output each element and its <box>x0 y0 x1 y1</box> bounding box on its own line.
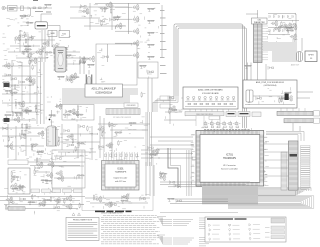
sub board part S1 <box>63 114 71 117</box>
svg-text:with I2C bus: with I2C bus <box>115 180 126 183</box>
audio amp QA1 <box>14 84 18 90</box>
power transformer T501 <box>246 90 253 102</box>
audio amp QA11 <box>25 76 32 83</box>
svg-text:CIRCUIT DIAGRAM NOTES: CIRCUIT DIAGRAM NOTES <box>101 212 123 215</box>
capacitor C210 <box>103 55 109 59</box>
transistor Q202 <box>79 57 86 64</box>
resistor R505 <box>244 65 252 68</box>
deflection part D18 <box>38 150 44 154</box>
wire <box>25 124 27 156</box>
EW part9 <box>36 157 40 163</box>
wire <box>153 165 155 196</box>
wire <box>299 126 301 131</box>
EW part6 <box>41 180 49 183</box>
wire <box>4 204 84 206</box>
shield loop wires <box>174 24 247 128</box>
resistor R208 <box>87 64 95 67</box>
bias part B4 <box>70 72 77 79</box>
abbreviation note line <box>160 212 238 214</box>
input stage Q01 <box>26 22 34 25</box>
wire <box>41 13 52 15</box>
wire <box>4 84 34 86</box>
wire <box>160 181 250 183</box>
symbols legend table <box>205 217 286 242</box>
svg-text:(LM78MO5/BLA): (LM78MO5/BLA) <box>264 84 277 87</box>
speaker driver T951 <box>297 52 303 62</box>
vertical out QV4 <box>19 184 23 190</box>
connector CN2 <box>254 24 263 63</box>
deflection part D21 <box>87 126 91 132</box>
video amp Q26 <box>100 8 108 11</box>
wire <box>48 37 50 48</box>
wire <box>4 145 44 147</box>
IF stage Q210 <box>51 43 58 50</box>
wire <box>247 63 249 81</box>
wire <box>15 126 17 160</box>
capacitor C223 <box>66 78 72 82</box>
IF stage Q21 <box>21 51 29 54</box>
chroma filter R30 <box>147 8 155 11</box>
deflection annotations <box>4 125 98 160</box>
power part PW14 <box>28 202 36 205</box>
sync part M2 <box>98 145 104 149</box>
sync part M10 <box>129 122 137 125</box>
wire <box>41 30 43 62</box>
wire <box>53 165 84 167</box>
EW part3 <box>47 161 54 168</box>
wire <box>297 97 310 99</box>
power to header wires <box>281 108 305 111</box>
audio amp QA6 <box>11 77 17 81</box>
A201 annotations <box>97 48 105 82</box>
ramp gen part3 <box>48 115 56 118</box>
ramp gen part1 <box>55 103 62 110</box>
interface part IF73 <box>152 148 159 155</box>
chroma amp Q30 <box>132 4 139 11</box>
power part PW4 <box>20 197 26 201</box>
note box N2 <box>238 112 250 117</box>
chroma filter R31 <box>147 20 155 23</box>
connector bar CN6 <box>8 207 25 210</box>
resistor R251 <box>141 92 145 98</box>
sync part M4 <box>97 126 104 133</box>
audio amp QB1 <box>36 108 40 114</box>
EW part10 <box>77 175 85 178</box>
wire <box>268 27 294 29</box>
warning symbols <box>72 213 81 216</box>
interface part IF72 <box>149 154 157 157</box>
IF annotations <box>13 31 76 65</box>
sync part M8 <box>110 124 116 128</box>
wire <box>19 30 21 52</box>
svg-text:1 2 3 4 5 6 7 8 9 10 11 12: 1 2 3 4 5 6 7 8 9 10 11 12 <box>113 117 131 119</box>
video buffer Q211 <box>81 58 89 61</box>
svg-text:A501_POW_1 KU SOUND KLUF: A501_POW_1 KU SOUND KLUF <box>256 81 285 84</box>
label box L2 <box>42 189 51 193</box>
decoupling cap CB1 <box>284 23 291 30</box>
wire <box>6 111 40 113</box>
vertical out QV2 <box>22 186 26 192</box>
decoupling cap CB4 <box>274 25 281 32</box>
wire <box>84 25 126 27</box>
svg-text:CN3 LED/IR: CN3 LED/IR <box>127 105 137 107</box>
chroma amp Q32 <box>132 28 139 35</box>
wire <box>43 62 45 124</box>
cap row CR1 <box>269 15 293 18</box>
interface annotations <box>142 146 157 165</box>
audio amp QA7 <box>32 64 36 70</box>
power rail annotations <box>4 187 78 214</box>
wire <box>47 25 60 27</box>
ir receiver part1 <box>169 105 176 112</box>
power part PW13 <box>9 201 15 205</box>
wire <box>2 102 40 104</box>
wire <box>2 135 40 137</box>
IF stage Q28 <box>64 55 72 58</box>
wire <box>61 124 63 150</box>
keyboard block A300 <box>183 87 238 109</box>
power part PS6 <box>279 98 283 104</box>
audio amp QB7 <box>26 109 32 113</box>
wire <box>51 120 53 127</box>
wire <box>292 123 294 131</box>
IF stage Q19 <box>21 34 27 38</box>
IF stage Q211 <box>60 47 68 50</box>
wire <box>161 5 163 58</box>
svg-text:Screen Controller: Screen Controller <box>221 168 238 171</box>
IF stage Q26 <box>42 40 49 47</box>
chroma filter R32 <box>147 32 155 35</box>
wire <box>44 30 46 62</box>
IC701 jungle IC block <box>196 131 264 187</box>
audio out part AO8 <box>104 201 111 208</box>
decoupling cap CB7 <box>290 33 297 40</box>
audio amp QB12 <box>17 113 23 117</box>
wire <box>59 26 61 32</box>
deflection part D24 <box>58 136 62 142</box>
wire <box>257 10 259 18</box>
wire <box>150 136 193 138</box>
wire <box>27 34 29 58</box>
power part PW5 <box>64 198 68 204</box>
decoupling cap CB3 <box>290 24 297 31</box>
cap bank annotations <box>266 13 295 44</box>
wire <box>10 208 78 210</box>
CRT top wires <box>266 132 304 142</box>
wire <box>151 78 153 112</box>
svg-text:IC300/KEYBOARD: IC300/KEYBOARD <box>202 92 220 95</box>
wire <box>51 30 53 47</box>
wire <box>268 13 296 15</box>
chroma amp Q34 <box>132 52 139 59</box>
IC701 to CRT wires <box>264 144 289 176</box>
EW part7 <box>46 172 53 179</box>
connector CN901 <box>289 141 299 190</box>
resistor R760 <box>167 198 175 201</box>
section border A601 <box>82 150 153 211</box>
wire <box>165 111 182 113</box>
step bus wire <box>168 148 178 188</box>
audio out part AO2 <box>121 196 127 200</box>
wire <box>257 63 259 81</box>
sync part M9 <box>118 140 122 146</box>
bus driver part2 <box>174 184 180 188</box>
EW part12 <box>56 157 62 161</box>
wire <box>172 198 228 200</box>
decoupling cap CB9 <box>280 23 287 30</box>
IC701 pin labels right <box>264 132 269 185</box>
connector CN3 bar <box>106 109 140 115</box>
wire <box>2 119 36 121</box>
wire <box>111 3 113 30</box>
EW part11 <box>57 175 64 182</box>
wiring legend group 1 <box>157 217 209 229</box>
ir receiver part3 <box>168 96 174 100</box>
schematic number text <box>95 211 132 213</box>
wire <box>98 123 150 125</box>
wire <box>91 126 93 160</box>
audio amp QA12 <box>28 78 35 85</box>
label box L4 <box>63 189 72 193</box>
sync part M7 <box>109 143 113 149</box>
input stage Q02 <box>19 15 27 18</box>
wire <box>16 57 48 59</box>
sub board part S3 <box>76 114 84 117</box>
IF stage Q27 <box>53 49 57 55</box>
wire <box>100 137 144 139</box>
wiring legend group 2 <box>157 235 209 246</box>
power part PS2 <box>256 97 262 101</box>
wire <box>115 6 132 8</box>
vertical out box <box>8 168 30 194</box>
deflection part D25 <box>64 129 70 133</box>
wire <box>150 144 193 146</box>
audio amp QB4 <box>13 116 20 123</box>
wire <box>90 202 148 204</box>
sub board box <box>62 105 94 121</box>
wire <box>0 200 80 202</box>
wire <box>0 127 44 129</box>
power part PW7 <box>39 203 45 207</box>
video buffer Q212 <box>80 60 86 64</box>
wire <box>40 14 42 22</box>
audio out part AO1 <box>120 200 128 203</box>
audio annotations <box>2 61 43 124</box>
svg-text:I/F Converter: I/F Converter <box>223 164 236 167</box>
video amp Q210 <box>110 18 116 22</box>
vertical bundle left of IC701 <box>187 150 192 196</box>
capacitor C453 <box>50 190 56 194</box>
power part PW11 <box>50 196 54 202</box>
video amp Q212 <box>101 20 105 26</box>
IC601 top pin wires <box>104 152 138 161</box>
note box dark text <box>228 113 249 114</box>
sandcastle part SC3 <box>159 173 167 176</box>
sub board part S2 <box>65 110 71 114</box>
resistor row above IC601 <box>104 154 137 157</box>
power part PS7 <box>286 95 293 102</box>
wire <box>66 63 80 65</box>
wire <box>60 133 98 135</box>
video buffer Q214 <box>88 56 95 63</box>
flyback transformer T444 <box>47 126 58 146</box>
ir annotations <box>163 97 192 126</box>
audio out part AO6 <box>95 196 102 203</box>
power part PS4 <box>281 97 285 103</box>
wire <box>70 6 128 8</box>
svg-text:SPKR: SPKR <box>308 55 314 57</box>
vertical out QV6 <box>17 186 25 189</box>
left edge annotations <box>2 34 9 60</box>
video amp Q27 <box>81 4 87 8</box>
tuner input annotations <box>15 16 34 26</box>
IF transformer T102 <box>59 31 70 38</box>
wire <box>30 165 80 167</box>
audio amp QA10 <box>10 92 18 95</box>
wire <box>70 17 100 19</box>
IF stage Q17 <box>25 38 29 44</box>
power part PS1 <box>279 98 287 101</box>
power part PW6 <box>43 199 51 202</box>
ir receiver part2 <box>169 108 173 114</box>
deflection part D15 <box>6 143 13 150</box>
header strip P901 <box>277 111 313 115</box>
bias part B2 <box>66 76 73 83</box>
audio out part AO3 <box>93 195 97 201</box>
deflection part D11 <box>20 136 26 140</box>
product safety note box <box>66 217 99 240</box>
wire <box>111 124 113 158</box>
bus wires center <box>146 112 151 166</box>
wire <box>115 30 132 32</box>
deflection part D19 <box>2 127 8 131</box>
label box RV1 <box>209 116 220 119</box>
A201 block outline <box>96 44 137 85</box>
decoupling cap CB8 <box>286 30 294 33</box>
IF stage Q14 <box>31 35 35 41</box>
IF stage Q11 <box>28 36 34 40</box>
capacitor C760 <box>176 199 182 203</box>
audio out part AO4 <box>140 197 146 201</box>
video amp Q211 <box>99 19 105 23</box>
sub board part S4 <box>72 110 79 117</box>
label box P902 <box>314 118 320 123</box>
label box SDA <box>160 104 170 108</box>
vertical out QV1 <box>12 176 20 179</box>
sync part M5 <box>109 122 113 128</box>
wire <box>110 129 148 131</box>
wire <box>2 93 38 95</box>
deflection part D14 <box>30 144 38 147</box>
video amp Q29 <box>105 2 112 9</box>
audio amp QA4 <box>5 73 11 77</box>
wire <box>253 95 284 97</box>
wire <box>149 162 151 196</box>
audio bus shaded band <box>263 42 297 51</box>
interface part IF71 <box>148 146 154 150</box>
power part PW15 <box>79 203 83 209</box>
bus return loops <box>228 196 314 209</box>
wire <box>54 155 84 157</box>
pin label column <box>301 146 311 190</box>
power block annotations <box>248 87 291 104</box>
main board shaded region <box>62 88 138 104</box>
wire <box>79 56 81 74</box>
label box L5 <box>73 189 82 193</box>
wire <box>36 171 50 173</box>
svg-text:TDA9380PS: TDA9380PS <box>115 171 127 174</box>
inline parts C103 C104 <box>28 7 45 10</box>
east-west box <box>52 150 85 188</box>
IF stage Q23 <box>35 49 42 56</box>
wire <box>34 159 50 161</box>
wire <box>29 58 31 103</box>
power part PW10 <box>57 198 61 204</box>
wire <box>158 148 193 150</box>
note box N3 <box>252 112 261 117</box>
wire <box>128 3 130 34</box>
sandcastle part SC2 <box>159 174 166 181</box>
wire <box>10 45 40 47</box>
IF stage Q22 <box>45 52 53 55</box>
label A201 TV/S MAIN KEJF <box>85 84 123 97</box>
wire <box>147 78 149 112</box>
wire <box>169 96 171 124</box>
label box SCL <box>160 96 170 100</box>
resistor R452 <box>11 188 19 191</box>
wire <box>28 161 85 163</box>
trap L102 <box>21 6 24 11</box>
capacitor C105 <box>24 14 30 18</box>
svg-text:IC200/HD2010A: IC200/HD2010A <box>95 92 112 95</box>
resistor R951 <box>293 38 297 44</box>
resistor R250 <box>139 65 147 68</box>
input annotations <box>6 19 25 27</box>
wire <box>0 196 85 198</box>
audio out annotations <box>86 193 149 209</box>
sub board annotations <box>66 107 89 121</box>
wire <box>150 153 193 155</box>
audio amp QA13 <box>3 62 10 69</box>
wire <box>11 60 13 112</box>
power part PW16 <box>38 200 45 207</box>
decoupling cap CB5 <box>271 20 278 27</box>
power part PS5 <box>284 92 292 95</box>
video amp Q25 <box>115 23 122 30</box>
ramp annotations <box>46 96 61 122</box>
svg-text:SAW: SAW <box>50 32 54 35</box>
deflection part D112 <box>26 123 30 129</box>
label strip under keyboard <box>185 112 224 116</box>
sync part M3 <box>106 142 113 149</box>
antenna jack J101 <box>2 6 5 9</box>
audio out part AO7 <box>111 201 115 207</box>
IF stage Q15 <box>14 35 21 42</box>
EW annotations <box>32 150 78 189</box>
wire <box>8 51 44 53</box>
wire <box>77 124 79 158</box>
transistor Q454 <box>65 195 72 202</box>
wire <box>5 7 52 9</box>
deflection part D12 <box>31 145 35 151</box>
IF stage Q25 <box>55 47 63 50</box>
deflection part D26 <box>75 146 79 152</box>
svg-text:T102: T102 <box>62 34 66 36</box>
tuner TU101 <box>35 22 47 29</box>
audio amp QB11 <box>4 114 12 117</box>
video amp Q28 <box>117 15 121 21</box>
regulator IC501 <box>285 94 289 101</box>
